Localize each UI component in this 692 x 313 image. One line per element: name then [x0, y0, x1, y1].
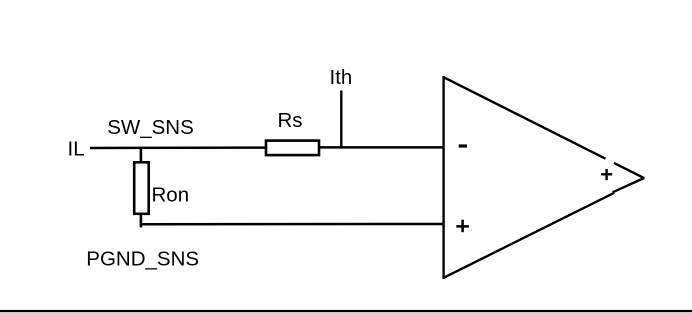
- bottom rule: [0, 310, 692, 312]
- op-amp inverting input minus sign: [459, 144, 467, 147]
- resistor Rs: [266, 141, 319, 156]
- wire IL to Rs left: [90, 146, 266, 149]
- wire Rs right to op-amp minus input: [320, 146, 444, 149]
- svg-text:PGND_SNS: PGND_SNS: [86, 247, 199, 270]
- svg-text:Ith: Ith: [330, 66, 353, 89]
- op-amp non-inverting input plus sign: [456, 225, 469, 228]
- op-amp U1 top edge with gap: [443, 77, 606, 159]
- wire PGND_SNS to op-amp plus input: [141, 223, 444, 226]
- svg-text:IL: IL: [68, 138, 85, 161]
- wire stub Ron bottom to PGND_SNS wire: [140, 214, 143, 228]
- resistor Ron: [134, 162, 149, 214]
- wire Ith vertical: [340, 91, 342, 149]
- svg-text:Ron: Ron: [152, 184, 190, 207]
- svg-text:Rs: Rs: [278, 109, 303, 132]
- op-amp U1 bottom edge with jog: [443, 193, 614, 278]
- svg-text:SW_SNS: SW_SNS: [107, 116, 194, 139]
- op-amp output polarity plus sign: [601, 173, 612, 175]
- op-amp U1 left edge: [442, 76, 444, 279]
- wire junction stub SW_SNS node down to Ron: [140, 147, 143, 162]
